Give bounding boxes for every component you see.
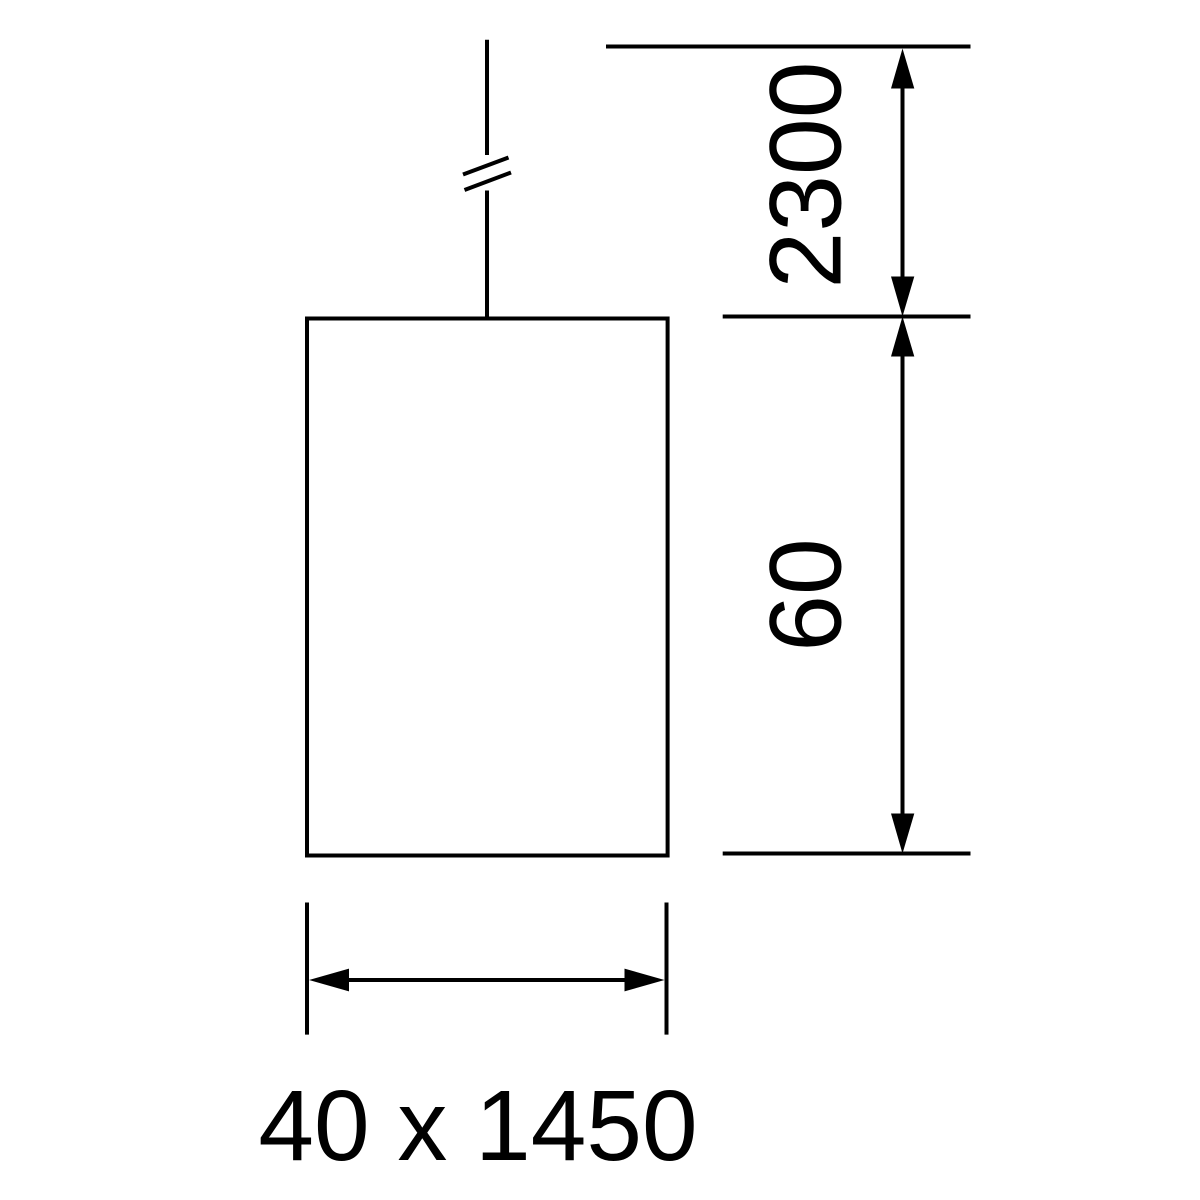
dimension 60 bottom arrowhead <box>891 814 914 854</box>
dimension 2300 top arrowhead <box>891 49 914 89</box>
svg-text:60: 60 <box>749 538 863 651</box>
lamp body rectangle <box>307 319 668 856</box>
suspension cable upper segment <box>485 40 489 155</box>
dimension 60 shaft <box>901 354 905 816</box>
dimension 2300 bottom arrowhead <box>891 277 914 317</box>
width dimension left arrowhead <box>309 969 349 992</box>
cable break slash upper <box>463 158 509 175</box>
cable break slash lower <box>465 173 512 191</box>
middle reference line (lamp top level) <box>723 315 971 319</box>
width dimension shaft <box>347 978 627 982</box>
bottom reference line (lamp bottom level) <box>723 852 971 856</box>
width dimension right arrowhead <box>625 969 665 992</box>
right extension line below lamp <box>665 903 669 1035</box>
dimension 60 top arrowhead <box>891 317 914 357</box>
left extension line below lamp <box>305 903 309 1035</box>
svg-text:2300: 2300 <box>749 62 863 289</box>
suspension cable lower segment <box>485 191 489 319</box>
dimension 2300 shaft <box>901 86 905 279</box>
top reference line (ceiling level) <box>606 45 971 49</box>
svg-text:40 x 1450: 40 x 1450 <box>258 1070 697 1182</box>
